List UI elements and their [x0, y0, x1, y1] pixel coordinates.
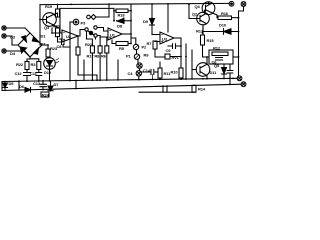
resistor R21 [76, 47, 80, 55]
bridge rectifier D1-D4 [18, 33, 42, 57]
svg-text:R15: R15 [207, 38, 215, 43]
bus 2 [2, 84, 241, 90]
transistor P3 circle [70, 21, 73, 23]
svg-text:RV1: RV1 [172, 55, 180, 60]
wire x70 down [69, 22, 71, 81]
terminal circle mid 1 [137, 63, 142, 68]
diode D8 [116, 18, 124, 24]
resistor R23 [47, 45, 49, 49]
terminal top right B [241, 2, 246, 7]
resistor R6 [100, 37, 108, 46]
capacitor C13 [40, 81, 47, 90]
wire x110 x118 verticals [117, 60, 119, 80]
op-amp U2 [62, 30, 78, 42]
wire bridge E to R23 column [42, 44, 48, 46]
svg-text:C14: C14 [143, 68, 151, 73]
svg-text:C12: C12 [15, 71, 23, 76]
resistor R18 [114, 10, 116, 12]
capacitor C11 [36, 70, 42, 82]
resistor R14 [193, 84, 195, 86]
diode D5 [4, 81, 6, 83]
resistor R15 [202, 25, 205, 35]
wire AC3 to bridge S [6, 51, 30, 57]
diode D7 [50, 81, 52, 86]
svg-text:R24: R24 [42, 92, 50, 97]
capacitor C8 [62, 40, 65, 45]
wire bridge S down [27, 57, 30, 59]
capacitor C9 [168, 44, 181, 49]
wire x192 Q5 base [192, 50, 196, 79]
terminal top right A [229, 1, 234, 6]
wire x167 bus2 to line3 [166, 86, 168, 92]
op-amp U1 [108, 28, 122, 40]
wire x163 bus2 to line3 [162, 86, 164, 92]
resistor R11 [158, 68, 162, 78]
svg-text:C13: C13 [33, 81, 41, 86]
wire AC1 to bridge N [6, 28, 30, 33]
transistor Q5 [196, 63, 210, 77]
svg-text:R10: R10 [171, 70, 179, 75]
svg-text:R18: R18 [118, 13, 126, 18]
resistor R19 [57, 5, 59, 10]
op-amp U3 [160, 32, 174, 44]
switch cluster [78, 30, 85, 37]
wire left vertical from rail to bridge [39, 5, 41, 45]
AC terminal 2 [2, 34, 6, 38]
svg-text:R22: R22 [16, 62, 24, 67]
LED D12 [44, 58, 56, 70]
wire x76 [75, 81, 77, 89]
svg-text:R14: R14 [198, 87, 206, 92]
snubber box R12 C6 [209, 50, 233, 64]
wire x131 node [130, 4, 132, 43]
diode D6 [25, 87, 31, 92]
terminal circle mid 2 [136, 71, 141, 76]
wire AC2 to bridge W [6, 36, 18, 45]
wire x189 [188, 4, 190, 18]
svg-text:R19: R19 [45, 4, 53, 9]
bus 1 [2, 78, 237, 81]
wire right rail [239, 6, 244, 76]
resistor R22 [26, 59, 28, 62]
box R24 [41, 92, 49, 97]
svg-text:R17: R17 [87, 53, 95, 58]
AC terminal 3 [2, 49, 6, 53]
line 3 [139, 91, 195, 93]
wire x19 [18, 81, 20, 90]
AC terminal 1 [2, 26, 6, 30]
trimmer RV1 [165, 54, 170, 59]
svg-text:D11: D11 [210, 70, 218, 75]
terminal out 1 [237, 76, 242, 81]
svg-text:D10: D10 [219, 23, 227, 28]
diode D10 [203, 31, 224, 33]
diode D9 [151, 4, 153, 18]
resistor R3 column [30, 59, 39, 62]
transistor Q3 [43, 13, 57, 27]
resistor R17 [95, 37, 97, 39]
pot chain P2 P1 [131, 34, 136, 44]
resistor R5 [116, 42, 128, 46]
diode D11 [223, 64, 225, 68]
resistor R16 [218, 16, 232, 20]
resistor R7 [153, 41, 157, 49]
svg-text:R16: R16 [221, 11, 229, 16]
wire x186 [185, 44, 187, 79]
capacitor C14 [142, 70, 159, 75]
terminal out 2 [241, 82, 246, 87]
resistor R8 [99, 37, 101, 46]
wire x109 vertical [108, 4, 110, 17]
wire y8 corner down at x114 [113, 8, 115, 20]
svg-text:R21: R21 [85, 42, 93, 47]
svg-text:D12: D12 [44, 70, 52, 75]
capacitor C7 [227, 64, 233, 84]
transistor Q2 [197, 12, 210, 25]
transistor Q4 [202, 2, 215, 15]
capacitor C12 [24, 70, 31, 82]
wire from switch to R17 [87, 31, 93, 46]
wire x84 stub [83, 60, 85, 80]
svg-text:R13: R13 [196, 29, 204, 34]
resistor R20 [54, 25, 58, 28]
wire x181 output node [180, 38, 182, 68]
trimmer circle and diamond [87, 15, 91, 19]
svg-text:R12: R12 [213, 46, 221, 51]
svg-text:C11: C11 [30, 71, 38, 76]
resistor R10 [179, 68, 183, 78]
wire second rail [60, 8, 114, 33]
svg-text:R20: R20 [53, 24, 61, 29]
wire top rail [40, 3, 229, 4]
